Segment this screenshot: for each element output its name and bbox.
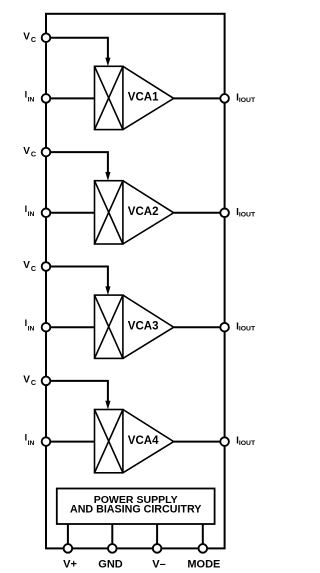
svg-text:IIOUT: IIOUT — [236, 93, 256, 104]
multiplier cell of VCA2 (rect with X) — [95, 181, 123, 244]
pin IOUT2 — [220, 209, 229, 218]
svg-text:VCA2: VCA2 — [128, 206, 159, 218]
svg-text:V–: V– — [152, 559, 165, 571]
amplifier triangle of VCA4 — [123, 410, 174, 473]
X cross of VCA1 — [95, 66, 123, 129]
wire IIN1 to multiplier — [46, 97, 95, 99]
amplifier triangle of VCA3 — [123, 295, 174, 358]
multiplier cell of VCA1 (rect with X) — [95, 66, 123, 129]
wire VC3 trace — [46, 267, 108, 288]
wire power box to GND pin — [111, 524, 113, 548]
wire power box to MODE pin — [202, 524, 204, 548]
svg-text:AND BIASING CIRCUITRY: AND BIASING CIRCUITRY — [70, 503, 201, 515]
wire VC2 trace — [46, 152, 108, 173]
arrowhead into VCA3 — [105, 286, 110, 295]
pin GND — [108, 544, 117, 553]
pin VC2 — [42, 148, 51, 157]
pin VC1 — [42, 33, 51, 42]
pin IOUT4 — [220, 437, 229, 446]
pin IOUT1 — [220, 94, 229, 103]
svg-text:IIOUT: IIOUT — [236, 321, 256, 332]
pin V– — [153, 544, 162, 553]
svg-text:V+: V+ — [63, 559, 77, 571]
wire IIN2 to multiplier — [46, 212, 95, 214]
pin IIN4 — [42, 437, 51, 446]
wire power box to V+ pin — [67, 524, 69, 548]
wire VC4 trace — [46, 381, 108, 402]
power supply box — [57, 489, 215, 525]
svg-text:IIN: IIN — [25, 89, 35, 103]
multiplier cell of VCA4 (rect with X) — [95, 410, 123, 473]
wire IIN3 to multiplier — [46, 326, 95, 328]
pin IIN1 — [42, 94, 51, 103]
pin VC3 — [42, 262, 51, 271]
amplifier triangle of VCA2 — [123, 181, 174, 244]
svg-text:IIN: IIN — [25, 204, 35, 218]
svg-text:IIOUT: IIOUT — [236, 436, 256, 447]
wire power box to V– pin — [156, 524, 158, 548]
svg-text:VC: VC — [23, 260, 36, 273]
X cross of VCA3 — [95, 295, 123, 358]
svg-text:MODE: MODE — [187, 559, 220, 571]
amplifier triangle of VCA1 — [123, 66, 174, 129]
svg-text:GND: GND — [98, 559, 123, 571]
wire VC1 trace — [46, 38, 108, 59]
X cross of VCA2 — [95, 181, 123, 244]
pin V+ — [64, 544, 73, 553]
wire IOUT2 from apex — [174, 212, 225, 214]
multiplier cell of VCA3 (rect with X) — [95, 295, 123, 358]
chip outline — [46, 14, 225, 549]
pin IIN2 — [42, 209, 51, 218]
svg-text:IIN: IIN — [25, 433, 35, 447]
wire IOUT1 from apex — [174, 97, 225, 99]
svg-text:VC: VC — [23, 375, 36, 388]
X cross of VCA4 — [95, 410, 123, 473]
arrowhead into VCA4 — [105, 401, 110, 410]
svg-text:IIOUT: IIOUT — [236, 207, 256, 218]
pin IIN3 — [42, 323, 51, 332]
wire IOUT3 from apex — [174, 326, 225, 328]
wire IOUT4 from apex — [174, 441, 225, 443]
pin VC4 — [42, 377, 51, 386]
svg-text:VCA1: VCA1 — [128, 92, 159, 104]
wire IIN4 to multiplier — [46, 441, 95, 443]
pin IOUT3 — [220, 323, 229, 332]
svg-text:VC: VC — [23, 31, 36, 44]
pin MODE — [199, 544, 208, 553]
arrowhead into VCA1 — [105, 58, 110, 67]
svg-text:VCA3: VCA3 — [128, 321, 159, 333]
svg-text:VC: VC — [23, 146, 36, 159]
svg-text:IIN: IIN — [25, 318, 35, 332]
arrowhead into VCA2 — [105, 172, 110, 181]
svg-text:VCA4: VCA4 — [128, 435, 159, 447]
